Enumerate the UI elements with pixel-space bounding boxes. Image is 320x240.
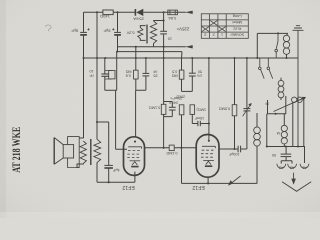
- node bus x=105.3: [104, 57, 106, 59]
- wire L8 top stub: [256, 113, 258, 127]
- tube V1 heater: [132, 162, 137, 165]
- variable capacitor arrow tuning: [228, 176, 241, 186]
- wire R5 chain x=181.5: [181, 58, 183, 91]
- wire antenna rail y=146.5: [267, 114, 305, 147]
- node x=208.9 y=123.5: [208, 122, 210, 124]
- terminal socket A3: [277, 164, 286, 168]
- resistor R1 140ohm: [103, 10, 113, 15]
- wire R4 to anode rail: [163, 114, 165, 147]
- resistor R4 0,1M anode: [161, 104, 166, 114]
- node bus x=135.8: [135, 57, 137, 59]
- capacitor C9 4uF: [104, 165, 113, 168]
- node antenna rail x=266.8: [266, 145, 268, 147]
- wire join RC3: [182, 90, 193, 92]
- wire anode rail y=147.8: [145, 147, 197, 149]
- node rail A x=163.6: [163, 46, 165, 48]
- wire switch rail y=33.4: [257, 33, 288, 58]
- wire vertical x=97 HT feed: [96, 12, 98, 122]
- speaker LS magnet box: [63, 145, 73, 158]
- inductor L7 antenna coil: [281, 125, 287, 131]
- tube V2 cathode line: [203, 159, 214, 161]
- tube V2 grid dashes: [201, 150, 214, 157]
- tube V2 anode line: [202, 146, 215, 148]
- inductor L8 tuning coil: [254, 127, 261, 134]
- node bus x=234.5: [233, 57, 235, 59]
- terminal mains L1 arrow: [185, 11, 193, 14]
- capacitor C12 antenna series: [281, 154, 292, 157]
- node rail B x=117.5: [116, 51, 118, 53]
- wire join RC1 bottom: [105, 90, 127, 149]
- tube V1 anode line: [128, 147, 141, 149]
- wire L8 bottom to grid line: [256, 146, 258, 183]
- capacitor C10 100pF: [238, 146, 241, 153]
- inductor L2 heater winding 6,3V: [138, 28, 143, 39]
- node y=149 x=234.5: [233, 148, 235, 150]
- node rail A x=135.8: [135, 46, 137, 48]
- resistor R3 0,8M: [134, 70, 139, 79]
- capacitor C4 50nF: [143, 73, 150, 76]
- node bus x=208.9: [208, 57, 210, 59]
- wire C8 to tube V2 line: [201, 123, 209, 125]
- wire R9 chain x=234.5: [234, 58, 236, 149]
- wire tuning grid line y=183.4: [182, 182, 258, 184]
- wire right verticals to antenna rail: [293, 100, 304, 147]
- terminal socket A1: [300, 164, 309, 168]
- tube V2 EF12 envelope: [196, 135, 219, 178]
- capacitor C8 15pF grid coupling: [198, 121, 200, 126]
- wire C3 bottom: [104, 76, 106, 90]
- node anode rail x=181.5: [180, 147, 182, 149]
- wire: [45, 25, 51, 31]
- inductor L1 dropper winding: [150, 21, 156, 44]
- wire heater winding leads: [140, 26, 145, 41]
- wire winding bottom to rail A: [153, 44, 155, 47]
- node V2 grid on tuning wire: [207, 182, 209, 184]
- capacitor C7 50cm: [189, 73, 196, 76]
- wire L3 bottom lead: [77, 164, 83, 168]
- wire corner to smoothing cap: [97, 122, 109, 165]
- wire C12 leads: [281, 147, 292, 164]
- wire R7 bottom to C8: [192, 114, 197, 123]
- node top wire x=97: [96, 11, 98, 13]
- fuse F1 0,8A: [168, 10, 178, 15]
- variable coupling arrow: [274, 97, 307, 112]
- wire C9 bottom: [108, 168, 110, 182]
- tube V1 cathode line: [130, 160, 141, 162]
- switch S1 contact: [275, 33, 278, 58]
- capacitor C3 10nF: [101, 74, 108, 76]
- resistor R5 0,5M: [179, 70, 184, 79]
- speaker LS frame: [68, 137, 80, 168]
- resistor R2 grid leak: [109, 71, 115, 79]
- tube V1 top lead node: [134, 141, 136, 143]
- wire socket A1 stub: [304, 147, 306, 164]
- tube V1 EF12 envelope: [124, 137, 145, 176]
- wire L7 leads: [283, 114, 285, 147]
- wire V1 bottom grid-cap lead: [97, 162, 135, 182]
- band table row labels: [230, 14, 245, 36]
- switch S2 contact a: [259, 58, 265, 79]
- node frame x=275.6: [275, 113, 277, 115]
- wire heater rail A y=46.8: [118, 46, 186, 48]
- wire top anode line y=12.3: [84, 11, 186, 13]
- wire L4 bottom lead: [96, 161, 98, 163]
- capacitor C1 8uF electrolytic: [80, 28, 90, 35]
- switch S2 contact b: [267, 58, 273, 79]
- wire rail B y=51.6: [117, 52, 182, 58]
- wire C7 chain x=192.3: [191, 58, 193, 91]
- tube V1 grid dashes: [127, 151, 140, 158]
- wire transformer primary top lead: [96, 122, 98, 140]
- antenna symbol: [282, 173, 311, 192]
- wire coupling frame: [268, 96, 286, 114]
- resistor R6 grid 2 feed: [179, 105, 184, 115]
- wire line x=163.6 upper: [163, 12, 165, 104]
- node junction diode line: [163, 11, 165, 13]
- capacitor C2 8uF electrolytic: [112, 28, 121, 35]
- wire stub bus to C3: [104, 58, 106, 74]
- tube V2 cathode bar: [205, 165, 212, 167]
- wire stub bus to C4: [145, 58, 147, 73]
- wire chain x=135.8 rail A to R3: [135, 47, 137, 70]
- wire V2 bottom grid lead: [207, 177, 209, 183]
- diode D1 25mA: [135, 9, 143, 16]
- node top-right of cap C2: [116, 11, 118, 13]
- band table position digits: [204, 33, 223, 38]
- node antenna rail x=298: [297, 145, 299, 147]
- wire R2 connectors: [105, 71, 112, 80]
- node arrow tip x=303.8: [303, 98, 305, 100]
- node 4uF junction: [108, 181, 110, 183]
- node bus x=192.3: [191, 57, 193, 59]
- node bus x=286.5: [285, 57, 287, 59]
- wire vertical x=117.5 to heater rail: [117, 12, 119, 51]
- transformer core: [146, 25, 148, 44]
- tube V2 top lead node: [208, 140, 210, 142]
- wire branch to winding top: [154, 20, 164, 23]
- tube V1 cathode bar: [131, 166, 138, 168]
- node bus x=163.6: [163, 57, 165, 59]
- node junction x=97 y=122: [96, 121, 98, 123]
- wire trimmer chain x=246.9: [246, 58, 248, 149]
- wire R6 down to grid line: [181, 115, 183, 184]
- inductor L4 output transformer primary: [94, 140, 101, 163]
- inductor L6 coupling coil: [278, 80, 284, 86]
- node bus x=83.5: [82, 57, 84, 59]
- node bus x=97: [96, 57, 98, 59]
- node bus x=246.9: [246, 57, 248, 59]
- wire grid circuit y=149: [219, 148, 247, 150]
- band table grid: [201, 14, 248, 39]
- wire main bus y=58: [84, 57, 298, 59]
- capacitor C5 mains filter: [160, 31, 167, 34]
- tube V2 wire from bus: [208, 58, 210, 141]
- node antenna rail x=285.9: [285, 145, 287, 147]
- node switch rail x=278: [277, 32, 279, 34]
- resistor R7 1M: [190, 105, 195, 115]
- node anode rail x=163.6: [163, 147, 165, 149]
- inductor L9 small antenna coil: [292, 97, 297, 102]
- tube V2 heater: [206, 161, 211, 164]
- resistor R9 0,5M: [232, 105, 237, 116]
- capacitor C6 bypass 25uF: [164, 102, 173, 117]
- terminal mains L2 arrow: [185, 45, 193, 48]
- transformer T1 core: [90, 139, 92, 165]
- ground symbol antenna earth: [293, 26, 304, 147]
- wire left vertical x=83.5: [79, 12, 83, 138]
- trimmer capacitor C11: [243, 103, 252, 116]
- inductor L5 wave trap: [287, 33, 288, 35]
- band table X marks: [202, 21, 226, 32]
- node branch y=20.5: [163, 19, 165, 21]
- resistor R8 coupling in-line: [169, 145, 174, 151]
- node bus x=257.3: [256, 57, 258, 59]
- inductor L3 speaker winding: [80, 141, 86, 164]
- wire join RC2 bottom to tube V1: [136, 76, 146, 137]
- wire stub rail B down x=116.7: [116, 52, 118, 91]
- speaker LS cone: [54, 138, 63, 165]
- wire L5 bottom: [286, 54, 288, 58]
- wire L6 leads: [280, 78, 282, 100]
- node bus x=145.9: [145, 57, 147, 59]
- terminal socket A2: [288, 164, 297, 168]
